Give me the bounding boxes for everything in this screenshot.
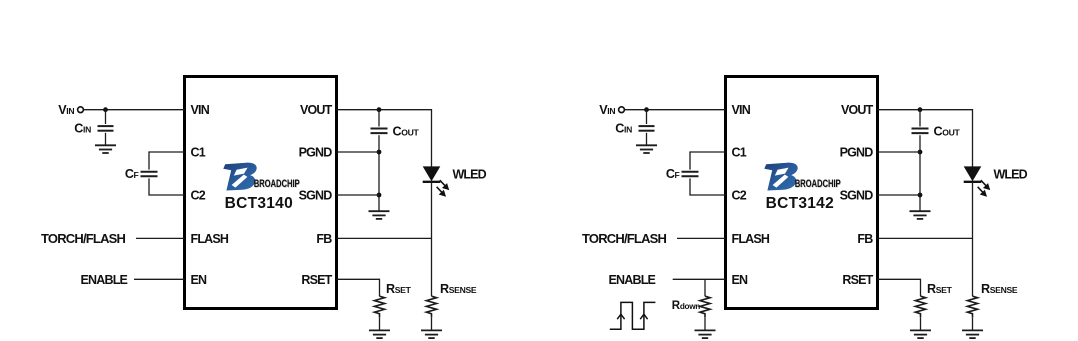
wire RSET pin [878, 279, 921, 296]
waveform ENABLE pulse train [610, 302, 656, 329]
junction VIN/CIN [644, 107, 649, 112]
ground RSENSE [421, 330, 442, 338]
svg-text:TORCH/FLASH: TORCH/FLASH [41, 231, 126, 246]
wire TORCH/FLASH input [136, 237, 185, 239]
wire PGND [337, 151, 380, 153]
svg-text:CIN: CIN [615, 122, 632, 136]
junction VIN/CIN [103, 107, 108, 112]
svg-text:VIN: VIN [191, 103, 210, 117]
capacitor CF [682, 172, 699, 177]
wire ENABLE input [134, 278, 185, 280]
wire PGND [878, 151, 921, 153]
wire CIN bottom [646, 133, 648, 146]
svg-text:BCT3140: BCT3140 [225, 195, 293, 212]
wire RSET to ground [920, 317, 922, 330]
wire WLED cathode / RSENSE [431, 182, 433, 296]
ground power [369, 211, 390, 219]
junction VOUT/COUT [918, 107, 923, 112]
svg-text:C2: C2 [732, 189, 747, 203]
svg-text:COUT: COUT [934, 124, 961, 138]
svg-text:COUT: COUT [393, 124, 420, 138]
svg-text:C1: C1 [191, 146, 206, 160]
svg-text:RSENSE: RSENSE [981, 282, 1018, 296]
wire RSENSE to ground [972, 317, 974, 330]
svg-text:BROADCHIP: BROADCHIP [254, 178, 300, 191]
wire SGND [337, 194, 380, 196]
wire CIN top [646, 110, 648, 124]
ground RSENSE [962, 330, 983, 338]
LED WLED (D2) [964, 166, 989, 195]
junction SGND/COUT [918, 193, 923, 198]
svg-text:VIN: VIN [732, 103, 751, 117]
capacitor COUT [371, 129, 388, 134]
wire WLED cathode / RSENSE [972, 182, 974, 296]
node VIN terminal [78, 107, 84, 113]
svg-text:FLASH: FLASH [732, 232, 770, 246]
svg-text:BCT3142: BCT3142 [766, 195, 834, 212]
svg-text:RSET: RSET [301, 273, 332, 287]
wire VIN input [625, 109, 726, 111]
wire RSET to ground [379, 317, 381, 330]
wire Rdown to ground [704, 317, 706, 330]
ground power [910, 211, 931, 219]
resistor RSET (R2a) [915, 296, 925, 317]
wire Rdown top [704, 279, 706, 296]
svg-text:CIN: CIN [74, 122, 91, 136]
svg-text:SGND: SGND [299, 189, 333, 203]
ground RSET [910, 330, 931, 338]
resistor RSENSE (R2b) [967, 296, 977, 317]
node VIN terminal [619, 107, 625, 113]
capacitor CIN [639, 126, 655, 131]
svg-text:RSET: RSET [386, 282, 412, 296]
svg-text:RSENSE: RSENSE [440, 282, 477, 296]
ground Rdown [695, 330, 716, 338]
wire C1 to CF [149, 152, 185, 170]
wire CIN bottom [105, 133, 107, 146]
wire VIN input [84, 109, 185, 111]
wire FB [878, 237, 973, 239]
wire CF to C2 [690, 178, 726, 195]
svg-text:EN: EN [732, 273, 749, 287]
IC U1 BCT3140 [185, 77, 337, 309]
junction VOUT/COUT [377, 107, 382, 112]
wire RSET pin [337, 279, 380, 296]
IC U2 BCT3142 [726, 77, 878, 309]
svg-text:ENABLE: ENABLE [609, 273, 656, 287]
wire SGND [878, 194, 921, 196]
wire RSENSE to ground [431, 317, 433, 330]
wire CIN top [105, 110, 107, 124]
resistor RSET (R1a) [374, 296, 384, 317]
svg-text:C1: C1 [732, 146, 747, 160]
svg-text:VIN: VIN [58, 103, 74, 117]
junction PGND/COUT [918, 150, 923, 155]
svg-text:ENABLE: ENABLE [81, 273, 128, 287]
wire VOUT [337, 110, 432, 167]
capacitor COUT [912, 129, 929, 134]
svg-text:FLASH: FLASH [191, 232, 229, 246]
svg-text:FB: FB [316, 232, 332, 246]
wire VOUT [878, 110, 973, 167]
svg-text:VOUT: VOUT [300, 103, 333, 117]
wire C1 to CF [690, 152, 726, 170]
svg-text:RSET: RSET [842, 273, 873, 287]
resistor RSENSE (R1b) [426, 296, 436, 317]
capacitor CF [141, 172, 158, 177]
wire TORCH/FLASH input [677, 237, 726, 239]
svg-text:RSET: RSET [927, 282, 953, 296]
logo Broadchip (U1) [223, 163, 300, 191]
svg-text:EN: EN [191, 273, 208, 287]
wire COUT to ground [378, 135, 380, 211]
svg-text:SGND: SGND [840, 189, 874, 203]
ground CIN [636, 145, 657, 153]
svg-text:VIN: VIN [599, 103, 615, 117]
ground CIN [95, 145, 116, 153]
svg-text:CF: CF [666, 167, 680, 181]
capacitor CIN [98, 126, 114, 131]
svg-text:FB: FB [857, 232, 873, 246]
svg-text:WLED: WLED [994, 167, 1028, 181]
LED WLED (D1) [423, 166, 448, 195]
junction PGND/COUT [377, 150, 382, 155]
wire COUT to ground [919, 135, 921, 211]
resistor Rdown [700, 296, 710, 317]
junction SGND/COUT [377, 193, 382, 198]
svg-text:C2: C2 [191, 189, 206, 203]
svg-text:WLED: WLED [453, 167, 487, 181]
svg-text:VOUT: VOUT [841, 103, 874, 117]
svg-text:BROADCHIP: BROADCHIP [795, 178, 841, 191]
svg-text:PGND: PGND [840, 146, 874, 160]
svg-text:Rdown: Rdown [672, 300, 700, 312]
wire COUT top [378, 110, 380, 127]
logo Broadchip (U2) [764, 163, 841, 191]
svg-text:CF: CF [125, 167, 139, 181]
wire ENABLE input [673, 278, 726, 280]
svg-text:TORCH/FLASH: TORCH/FLASH [582, 231, 667, 246]
ground RSET [369, 330, 390, 338]
wire FB [337, 237, 432, 239]
wire CF to C2 [149, 178, 185, 195]
svg-text:PGND: PGND [299, 146, 333, 160]
wire COUT top [919, 110, 921, 127]
